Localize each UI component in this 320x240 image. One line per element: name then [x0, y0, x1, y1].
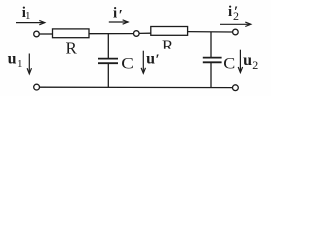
svg-text:1: 1 — [17, 58, 23, 70]
svg-text:i: i — [228, 4, 232, 20]
capacitor C1 bottom plate — [98, 62, 118, 64]
junction: C2 top lead — [210, 32, 212, 58]
wire: middle node to resistor R2 — [139, 32, 151, 34]
svg-text:C: C — [223, 56, 235, 73]
terminal 1 (top-left port circle) — [34, 31, 40, 37]
node: middle circle on top wire — [134, 31, 140, 37]
svg-text:′: ′ — [119, 7, 123, 23]
wire: bottom rail — [40, 86, 233, 88]
resistor R2 body — [151, 27, 188, 36]
current arrow i' — [109, 20, 128, 24]
wire: R1 to middle node (through junction of C1) — [89, 33, 134, 35]
current arrow i2' — [220, 22, 251, 26]
capacitor C2 bottom lead — [210, 62, 212, 87]
voltage arrow u' (downward) — [141, 51, 145, 74]
svg-text:u: u — [146, 51, 155, 68]
capacitor C2 bottom plate — [203, 61, 222, 63]
capacitor C1 top plate — [98, 58, 118, 60]
svg-text:2: 2 — [252, 58, 258, 72]
voltage arrow u1 (downward) — [27, 54, 31, 74]
terminal 2 (top-right port circle) — [233, 29, 239, 35]
svg-text:u: u — [8, 50, 17, 67]
svg-text:R: R — [66, 39, 78, 58]
svg-text:i: i — [113, 6, 117, 22]
capacitor C1 bottom lead — [107, 63, 109, 87]
wire: terminal 1 to resistor R1 — [39, 33, 52, 35]
current arrow i1 — [16, 20, 45, 24]
svg-text:′: ′ — [156, 52, 160, 68]
svg-text:1: 1 — [25, 10, 31, 22]
svg-text:u: u — [243, 52, 252, 69]
junction: C1 top lead — [107, 34, 109, 59]
terminal 2' (bottom-right port circle) — [233, 85, 239, 91]
resistor R1 body — [53, 29, 90, 38]
svg-text:′: ′ — [234, 4, 238, 20]
terminal 1' (bottom-left port circle) — [34, 84, 40, 90]
svg-text:C: C — [121, 55, 134, 72]
voltage arrow u2 (downward) — [238, 50, 242, 73]
capacitor C2 top plate — [203, 57, 222, 59]
wire: R2 to terminal 2 (through junction of C2) — [188, 31, 233, 33]
